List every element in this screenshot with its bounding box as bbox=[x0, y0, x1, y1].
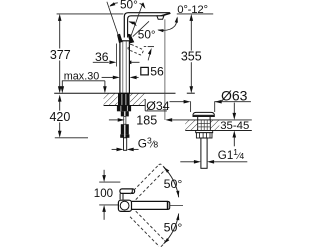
wire 36 extension line from lever tip bbox=[115, 44, 117, 67]
mounting nut below deck (dark) bbox=[117, 106, 131, 112]
svg-text:50°: 50° bbox=[164, 221, 183, 235]
lever lowered position (dashed) bbox=[127, 44, 143, 56]
svg-text:56: 56 bbox=[150, 65, 164, 79]
Ø34 box left tick bbox=[144, 99, 146, 111]
lever tip taper (dark wedge) bbox=[161, 13, 171, 17]
wire square-56 right leader arrow bbox=[136, 76, 138, 78]
0-12deg lever tilt arc bbox=[158, 18, 177, 31]
wire 36 centre extension line bbox=[123, 59, 125, 68]
square 56 symbol bbox=[141, 67, 149, 75]
mounting shank in deck hole (dark) bbox=[118, 93, 130, 105]
50deg second angle line bbox=[133, 21, 149, 36]
body inner tube lines bbox=[122, 42, 124, 94]
wire max.30 underline bbox=[62, 80, 105, 82]
lever right tilted position (solid) bbox=[127, 34, 134, 44]
svg-text:355: 355 bbox=[181, 50, 202, 64]
supply hose upper right bbox=[125, 111, 128, 116]
svg-text:100: 100 bbox=[94, 188, 113, 200]
top view spout arm bbox=[132, 200, 168, 202]
wire 377 dimension line bbox=[59, 21, 61, 49]
50deg swivel arc upper bbox=[164, 167, 179, 197]
svg-text:50°: 50° bbox=[164, 177, 183, 191]
faucet body column bbox=[120, 41, 129, 93]
wire Ø34 underline bbox=[145, 110, 167, 112]
wire 185 left arrow bbox=[109, 119, 118, 121]
top view body circle bbox=[120, 201, 129, 210]
wire 100 bottom extension line bbox=[99, 204, 119, 206]
waste deck hatch right bbox=[210, 120, 219, 131]
wire max.30 left drop arrow bbox=[61, 81, 63, 88]
deck line stub under 355 arrow bbox=[187, 92, 195, 94]
hose end cap right bbox=[125, 134, 129, 137]
dashed swivel arm upper bbox=[130, 211, 166, 247]
centreline tick bbox=[163, 109, 168, 111]
waste threaded body grid bbox=[198, 120, 211, 131]
50deg second arc arrow bbox=[129, 22, 136, 26]
wire G3/8 left arrow bbox=[112, 148, 117, 150]
wire 355 dimension line bbox=[190, 21, 192, 51]
waste deck bottom line bbox=[185, 130, 252, 132]
wire 185 right arrow + waste deck top line bbox=[165, 118, 172, 122]
deck hatching left band bbox=[104, 93, 118, 105]
svg-text:Ø63: Ø63 bbox=[221, 87, 248, 103]
wire 420 dimension line bbox=[59, 101, 61, 111]
50deg upper-right angle line bbox=[131, 3, 143, 37]
wire Ø63 left arrow bbox=[170, 101, 186, 103]
wire dashed leader to lowered lever bbox=[144, 46, 148, 48]
svg-text:420: 420 bbox=[49, 110, 70, 124]
faucet spout inner profile bbox=[128, 16, 161, 38]
wire square-56 left leader arrow bbox=[102, 76, 114, 78]
waste locknut bbox=[196, 133, 212, 138]
thin hose mid section bbox=[124, 116, 126, 124]
wire 100 dimension arrows bbox=[103, 170, 105, 176]
waste tailpipe bbox=[201, 138, 207, 168]
wire Ø63 right arrow + underline bbox=[215, 101, 251, 103]
svg-text:185: 185 bbox=[136, 113, 157, 127]
hose end cap left bbox=[120, 134, 124, 137]
wire 377 top extension line bbox=[57, 13, 124, 15]
svg-text:Ø34: Ø34 bbox=[146, 99, 170, 113]
spout outlet centreline bbox=[164, 19, 166, 120]
wire G1-1/4 right arrow + underline bbox=[207, 160, 214, 164]
arrow pointing at lowered lever bbox=[148, 51, 151, 60]
wire 35-45 top arrow bbox=[233, 103, 235, 114]
supply hose lower left bbox=[121, 124, 124, 134]
top view body square bbox=[118, 200, 131, 211]
dashed swivel arm lower bbox=[130, 163, 166, 199]
lever left tilted position (solid) bbox=[117, 34, 123, 43]
wire G3/8 right arrow bbox=[134, 148, 139, 150]
wire 36 underline bbox=[93, 61, 109, 63]
top view lever bbox=[120, 189, 135, 194]
wire max.30 right drop arrow bbox=[104, 81, 106, 88]
waste cap bbox=[193, 112, 214, 116]
wire 0-12deg underline bbox=[177, 13, 213, 15]
aerator under spout end bbox=[157, 16, 164, 19]
wire 35-45 bottom arrow bbox=[233, 136, 235, 146]
wire 100 top extension line bbox=[99, 181, 120, 183]
wire G1-1/4 left arrow bbox=[180, 161, 194, 163]
deck top surface line bbox=[54, 92, 175, 94]
svg-text:50°: 50° bbox=[120, 0, 138, 12]
waste deck hatch left bbox=[185, 120, 198, 131]
50deg swivel arc lower bbox=[164, 214, 179, 244]
svg-text:35-45: 35-45 bbox=[220, 120, 249, 132]
wire solid end line at lowered lever bbox=[148, 46, 154, 48]
deck hatching right band bbox=[130, 93, 145, 105]
50deg upper left arc arrow bbox=[110, 3, 118, 6]
deck bottom line bbox=[104, 105, 145, 107]
supply hose upper left bbox=[121, 111, 124, 116]
arm end cap bbox=[168, 201, 170, 209]
50deg upper right arc arrow bbox=[140, 3, 145, 7]
G3/8 threaded end bbox=[124, 138, 127, 151]
arm centreline bbox=[170, 204, 183, 206]
wire Ø63 right extension line bbox=[214, 101, 216, 112]
svg-text:36: 36 bbox=[95, 50, 109, 64]
supply hose lower right bbox=[125, 124, 128, 134]
wire 36 right arrow bbox=[131, 61, 139, 63]
waste cap neck bbox=[197, 117, 199, 120]
wire 36 left arrow bbox=[109, 61, 116, 65]
top view lever neck bbox=[119, 193, 121, 199]
waste locknut flange bbox=[196, 131, 213, 133]
svg-text:377: 377 bbox=[50, 48, 71, 62]
wire 420 bottom extension line bbox=[55, 137, 88, 139]
50deg upper-left angle line bbox=[107, 2, 119, 37]
wire Ø63 left extension line bbox=[190, 101, 192, 112]
faucet spout outer profile bbox=[124, 13, 170, 38]
